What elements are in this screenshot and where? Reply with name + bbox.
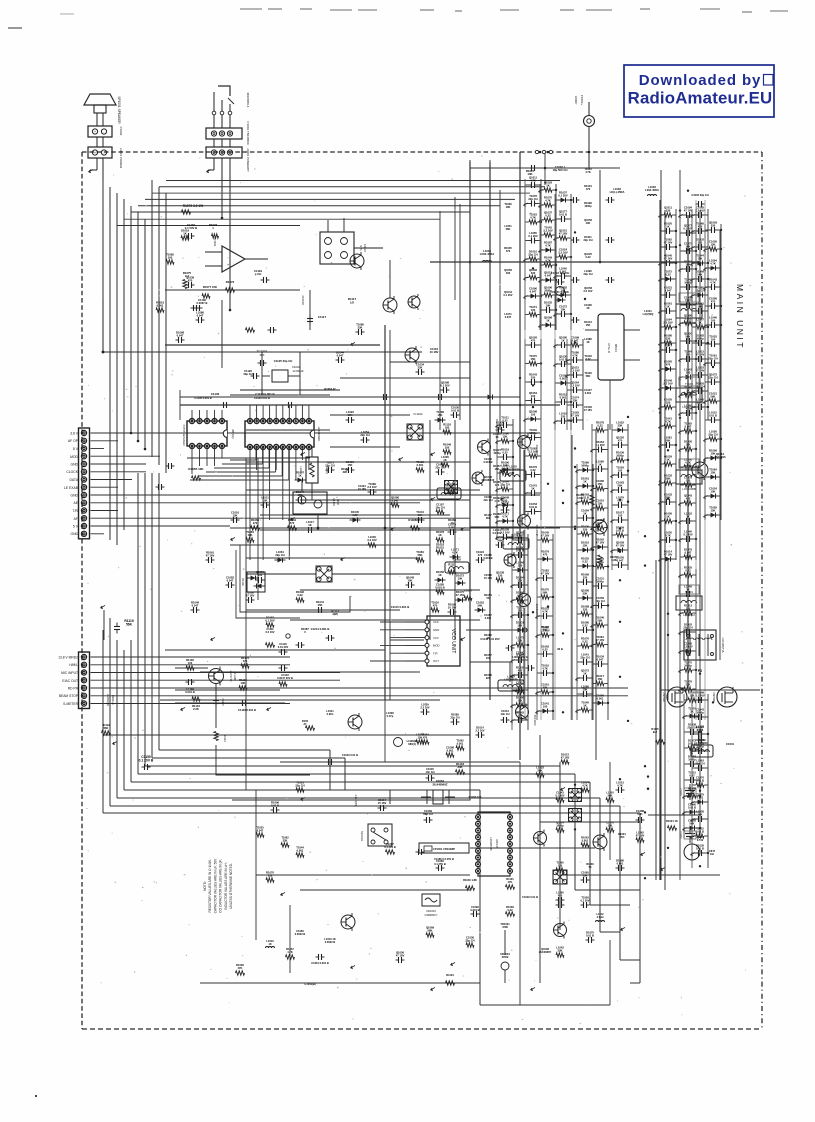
svg-text:MC145: MC145 [495,839,499,848]
svg-text:10K: 10K [458,577,463,581]
svg-text:15K: 15K [711,452,716,456]
svg-text:0.047: 0.047 [197,314,204,318]
svg-text:4.7K: 4.7K [572,354,578,358]
svg-text:470: 470 [711,300,716,304]
svg-text:0.22: 0.22 [697,728,703,732]
svg-text:+: + [94,151,96,155]
svg-text:0.22: 0.22 [665,273,671,277]
svg-text:1000p: 1000p [529,431,537,435]
svg-text:0.0067 B: 0.0067 B [197,301,208,305]
svg-text:2.2 16V: 2.2 16V [584,289,593,293]
svg-text:C1130: C1130 [211,392,220,396]
svg-text:AF AMP: AF AMP [233,671,237,681]
svg-text:10 18V: 10 18V [430,350,439,354]
svg-text:R1072 2.2 1W: R1072 2.2 1W [183,204,203,208]
svg-text:56K: 56K [104,726,109,730]
svg-text:0.22: 0.22 [585,255,591,259]
svg-text:4.7K: 4.7K [502,515,508,519]
svg-text:56K: 56K [126,623,133,627]
svg-text:0.01 B: 0.01 B [696,830,704,834]
svg-text:330: 330 [666,209,671,213]
svg-text:D1102: D1102 [241,578,245,586]
svg-text:1.8K: 1.8K [577,496,583,500]
svg-text:33K: 33K [543,686,548,690]
svg-text:AE: AE [73,501,78,505]
svg-text:47 16V: 47 16V [559,232,568,236]
svg-text:4.7K: 4.7K [542,610,548,614]
svg-text:L002-45RA: L002-45RA [480,252,494,256]
svg-text:33K: 33K [558,949,563,953]
svg-text:8 V: 8 V [73,447,79,451]
svg-text:47 16V: 47 16V [571,414,580,418]
svg-text:15K: 15K [698,257,703,261]
svg-text:MOD: MOD [433,644,440,648]
svg-text:22p CH: 22p CH [528,253,537,257]
svg-text:22p CH: 22p CH [695,385,704,389]
svg-text:0.047: 0.047 [227,579,234,583]
svg-text:4.7K: 4.7K [710,262,716,266]
svg-text:10n CH: 10n CH [426,770,435,774]
svg-text:47 16V: 47 16V [561,756,570,760]
svg-text:BEAM STOP: BEAM STOP [59,694,79,698]
svg-text:22p CH: 22p CH [708,433,717,437]
svg-text:0.1 20V: 0.1 20V [440,384,449,388]
svg-text:15K: 15K [583,544,588,548]
svg-text:15K: 15K [598,482,603,486]
svg-text:3.8 V: 3.8 V [70,432,79,436]
svg-text:0.01 B: 0.01 B [529,505,537,509]
svg-text:330: 330 [583,608,588,612]
svg-text:47 16V: 47 16V [541,572,550,576]
svg-text:1K: 1K [308,523,311,527]
svg-text:0.22: 0.22 [582,640,588,644]
svg-text:10K: 10K [711,490,716,494]
svg-text:470: 470 [253,521,258,525]
svg-text:0.001 B: 0.001 B [185,690,194,694]
svg-text:22p CH: 22p CH [580,656,589,660]
svg-text:10K: 10K [506,205,511,209]
svg-text:0.90n: 0.90n [327,712,334,716]
svg-text:RESISTOR VALUES ARE IN Ω 1/4W.: RESISTOR VALUES ARE IN Ω 1/4W. [208,859,212,912]
svg-text:R1070: R1070 [226,280,235,284]
svg-text:47 16V: 47 16V [696,369,705,373]
svg-text:8B(2)Q: 8B(2)Q [231,429,235,439]
svg-text:0.001: 0.001 [157,304,164,308]
svg-text:4.7K: 4.7K [545,244,551,248]
svg-text:LOC3304: LOC3304 [683,613,695,617]
svg-text:4.7K: 4.7K [585,170,591,174]
svg-text:GND: GND [70,532,78,536]
svg-text:0.01 20V: 0.01 20V [278,645,289,649]
svg-text:10K: 10K [561,308,566,312]
svg-text:R1062 47: R1062 47 [324,387,336,391]
svg-text:GND: GND [70,494,78,498]
svg-text:0.047: 0.047 [392,499,399,503]
svg-text:33K: 33K [583,873,588,877]
svg-text:4.7K: 4.7K [665,534,671,538]
svg-text:AF: AF [74,517,78,521]
svg-text:LOC3208B: LOC3208B [682,487,696,491]
svg-text:0.1 20V: 0.1 20V [265,619,274,623]
svg-text:0.001: 0.001 [582,838,589,842]
svg-text:8818: 8818 [336,499,340,505]
svg-text:LOC3007B: LOC3007B [506,468,519,472]
svg-text:LOC3306B: LOC3306B [682,321,696,325]
svg-text:2.2 16V: 2.2 16V [570,384,579,388]
svg-text:R1040 1.8K: R1040 1.8K [463,878,477,882]
svg-text:2SC2668Y: 2SC2668Y [535,604,539,617]
svg-text:2SK508: 2SK508 [712,692,716,702]
svg-text:4.7K: 4.7K [582,783,588,787]
svg-text:C1023: C1023 [679,831,682,839]
svg-text:2SC2668: 2SC2668 [535,525,539,536]
svg-text:100: 100 [188,661,193,665]
svg-text:0.22: 0.22 [582,624,588,628]
svg-text:J1004 POWER: J1004 POWER [119,148,123,169]
svg-text:2.2 16V: 2.2 16V [570,369,579,373]
svg-text:56K: 56K [666,439,671,443]
svg-text:15K: 15K [586,323,591,327]
svg-text:8001LF: 8001LF [111,695,115,705]
svg-text:0.1 25V B: 0.1 25V B [434,862,446,866]
svg-text:470: 470 [243,659,248,663]
svg-text:C1003 33p CH: C1003 33p CH [691,193,708,197]
svg-text:36 B: 36 B [557,647,563,651]
svg-text:R1051: R1051 [436,546,444,550]
svg-text:GND: GND [70,463,78,467]
svg-text:22p CH: 22p CH [451,715,460,719]
svg-text:10n CH: 10n CH [501,712,510,716]
svg-text:0.001: 0.001 [297,849,304,853]
svg-text:C1087: C1087 [464,588,472,592]
svg-text:680(1): 680(1) [408,742,416,746]
svg-text:1K: 1K [586,306,589,310]
svg-text:470: 470 [698,225,703,229]
svg-text:CO CAPACITOR VALUES ARE IN pF.: CO CAPACITOR VALUES ARE IN pF. [219,859,223,913]
svg-text:1000p: 1000p [696,711,704,715]
svg-text:10K: 10K [586,221,591,225]
svg-text:0.1 20V: 0.1 20V [528,234,537,238]
svg-text:0.22: 0.22 [297,593,303,597]
svg-text:22p CH: 22p CH [465,939,474,943]
svg-text:100: 100 [531,308,536,312]
svg-text:1K: 1K [666,305,669,309]
svg-text:LOC3007B: LOC3007B [504,678,517,682]
svg-text:1000p: 1000p [596,580,604,584]
svg-text:470: 470 [188,279,193,283]
svg-text:2.2 16V: 2.2 16V [476,728,485,732]
svg-text:CAPACITOR VALUES ARE IN uF. 50: CAPACITOR VALUES ARE IN uF. 50V [213,858,217,913]
svg-text:1000p: 1000p [696,337,704,341]
svg-text:C1031: C1031 [726,742,734,746]
svg-text:47K: 47K [508,880,513,884]
svg-text:0.047: 0.047 [257,828,264,832]
svg-text:0.1 20V: 0.1 20V [581,898,590,902]
svg-text:330: 330 [268,874,273,878]
svg-text:470: 470 [506,249,511,253]
svg-text:33p CH: 33p CH [243,372,252,376]
svg-text:0.1 20V: 0.1 20V [504,293,513,297]
svg-text:0.001 B: 0.001 B [483,460,492,464]
svg-text:470: 470 [433,604,438,608]
svg-text:0.22: 0.22 [502,419,508,423]
svg-text:15K: 15K [711,471,716,475]
svg-text:0.0022 B: 0.0022 B [325,940,336,944]
svg-text:DATA: DATA [69,478,78,482]
svg-text:56K: 56K [598,619,603,623]
svg-text:1K: 1K [583,512,586,516]
svg-text:T/R: T/R [73,509,79,513]
svg-text:33K: 33K [358,326,363,330]
svg-text:0.22: 0.22 [582,560,588,564]
svg-text:470: 470 [586,187,591,191]
svg-text:330: 330 [561,415,566,419]
svg-text:CLOCK: CLOCK [66,470,78,474]
svg-text:0.47p: 0.47p [387,714,394,718]
svg-text:100: 100 [618,514,623,518]
svg-text:HD4053B: HD4053B [489,837,493,850]
svg-text:33K: 33K [583,592,588,596]
svg-text:0.047: 0.047 [597,658,604,662]
svg-text:0.1 20V B: 0.1 20V B [384,845,396,849]
svg-text:22n CH: 22n CH [435,466,444,470]
svg-text:22p CH: 22p CH [584,272,593,276]
svg-text:1K: 1K [443,458,446,462]
svg-text:PD: PD [698,669,703,673]
svg-text:18p 50V CH: 18p 50V CH [553,168,568,172]
svg-text:T1001: T1001 [685,590,693,594]
svg-text:330: 330 [698,241,703,245]
svg-text:C1117: C1117 [318,315,327,319]
svg-text:22p CH: 22p CH [528,197,537,201]
svg-text:100: 100 [445,446,450,450]
svg-text:1K: 1K [666,458,669,462]
svg-text:47 16V: 47 16V [636,834,645,838]
svg-text:100: 100 [531,394,536,398]
svg-text:LE EXAB: LE EXAB [64,486,79,490]
svg-text:1K: 1K [495,435,498,439]
svg-text:0.1 20V B: 0.1 20V B [139,759,154,763]
svg-text:47 16V: 47 16V [246,594,255,598]
svg-text:0.047: 0.047 [617,559,624,563]
svg-text:15K: 15K [531,357,536,361]
svg-text:P1001 T8038800: P1001 T8038800 [246,122,250,145]
svg-text:0.001 B: 0.001 B [470,908,479,912]
svg-text:15K: 15K [711,243,716,247]
svg-text:47 16V: 47 16V [696,353,705,357]
svg-text:2.2 16V: 2.2 16V [421,705,430,709]
svg-text:0.22: 0.22 [585,357,591,361]
svg-text:SP1001 SPEAKER: SP1001 SPEAKER [117,96,121,124]
svg-text:J1001 POWER8T: J1001 POWER8T [246,148,250,172]
svg-text:2.2 16V: 2.2 16V [695,209,704,213]
svg-text:IC1101: IC1101 [213,237,217,247]
svg-text:OUT: OUT [433,659,439,663]
svg-text:0.047: 0.047 [505,315,512,319]
svg-text:15 16V: 15 16V [484,576,492,580]
svg-text:p CH: p CH [255,272,262,276]
svg-text:47 16V: 47 16V [396,954,405,958]
svg-text:1K: 1K [486,636,489,640]
svg-text:360: 360 [486,516,491,520]
svg-text:100: 100 [666,401,671,405]
svg-text:1K: 1K [183,232,186,236]
svg-text:L002-45RA: L002-45RA [645,188,659,192]
svg-text:22p CH: 22p CH [695,762,704,766]
svg-text:0.01 B: 0.01 B [696,847,704,851]
svg-text:56K: 56K [478,604,483,608]
svg-text:P1002: P1002 [119,127,123,136]
svg-text:RD PR: RD PR [68,687,79,691]
svg-text:C1214 0.001 B: C1214 0.001 B [311,627,330,631]
svg-text:R1065 470: R1065 470 [408,518,422,522]
svg-text:4(M): 4(M) [332,612,338,616]
svg-text:MIC INPUT: MIC INPUT [61,671,78,675]
svg-text:C1003 33p CH: C1003 33p CH [551,271,570,275]
svg-text:10K: 10K [698,813,703,817]
svg-text:100: 100 [711,319,716,323]
svg-text:10: 10 [451,521,454,525]
svg-text:1000P: 1000P [574,96,578,105]
svg-text:0.01 B: 0.01 B [709,414,717,418]
svg-text:0.001: 0.001 [617,862,624,866]
svg-text:0.22: 0.22 [597,424,603,428]
svg-text:VCV: VCV [433,636,439,640]
svg-text:68p CH: 68p CH [423,812,432,816]
svg-text:C1043 0.01 B: C1043 0.01 B [342,753,358,757]
svg-text:C1115 0.001 B: C1115 0.001 B [391,605,410,609]
svg-text:22p CH: 22p CH [695,401,704,405]
svg-text:56K: 56K [586,374,591,378]
svg-text:56K: 56K [711,395,716,399]
svg-text:15K: 15K [711,509,716,513]
svg-text:R1033 100: R1033 100 [469,795,482,799]
svg-text:100: 100 [531,413,536,417]
svg-text:D1001 S1308: D1001 S1308 [551,290,569,294]
svg-text:4.7K: 4.7K [542,667,548,671]
svg-text:CD1001: CD1001 [426,909,436,913]
svg-text:4.7K: 4.7K [530,216,536,220]
svg-text:15K: 15K [598,677,603,681]
svg-text:C1125 33p CH: C1125 33p CH [274,359,293,363]
svg-text:RadioAmateur.EU: RadioAmateur.EU [628,89,773,108]
svg-text:56K: 56K [543,591,548,595]
svg-text:22p CH: 22p CH [708,357,717,361]
svg-text:0.01 B: 0.01 B [451,409,459,413]
svg-text:MAIN UNIT: MAIN UNIT [735,284,745,350]
svg-text:56K: 56K [538,769,543,773]
svg-text:2.2 16V: 2.2 16V [266,630,275,634]
svg-text:UNLESS OTHERWISE NOTED.: UNLESS OTHERWISE NOTED. [229,863,233,909]
svg-text:47 16V: 47 16V [456,593,465,597]
svg-text:201018: 201018 [301,295,305,305]
svg-text:1K: 1K [438,573,441,577]
svg-text:15K: 15K [233,514,238,518]
svg-text:XTAL B: XTAL B [607,343,611,353]
svg-text:5 V: 5 V [73,525,79,529]
svg-text:C1049 0.01 B: C1049 0.01 B [522,895,538,899]
svg-text:EIAC OUT: EIAC OUT [62,679,78,683]
svg-text:0.001: 0.001 [597,697,604,701]
svg-text:330: 330 [531,376,536,380]
svg-text:INDUCTOR VALUES ARE IN uH.: INDUCTOR VALUES ARE IN uH. [224,862,228,909]
svg-text:MIC8080-4: MIC8080-4 [246,93,250,108]
svg-text:47 16V: 47 16V [596,541,605,545]
svg-text:0.047: 0.047 [337,354,344,358]
svg-text:0.01: 0.01 [637,812,643,816]
svg-text:330: 330 [498,574,503,578]
svg-text:330: 330 [711,224,716,228]
svg-text:1K: 1K [583,672,586,676]
svg-text:47 16V: 47 16V [684,209,693,213]
svg-text:470: 470 [666,363,671,367]
svg-text:47 16V: 47 16V [206,554,215,558]
svg-text:10K: 10K [698,305,703,309]
svg-text:0.001: 0.001 [417,463,424,467]
svg-text:0.001: 0.001 [447,749,454,753]
svg-text:22n CH: 22n CH [484,498,493,502]
svg-text:0.001: 0.001 [485,616,492,620]
svg-text:AF OP: AF OP [68,439,79,443]
svg-text:1/2: 1/2 [350,300,354,304]
svg-text:10K: 10K [527,172,532,176]
svg-text:15 16V: 15 16V [378,801,387,805]
svg-text:2SC: 2SC [619,835,624,839]
svg-text:0.001 B: 0.001 B [483,556,492,560]
svg-text:2.2 16V: 2.2 16V [367,485,376,489]
svg-text:33K: 33K [618,424,623,428]
svg-text:H/M/L: H/M/L [69,663,78,667]
svg-text:2.2 16V: 2.2 16V [493,531,502,535]
svg-text:10K: 10K [583,688,588,692]
svg-text:1000p: 1000p [696,745,704,749]
svg-text:1K: 1K [546,184,549,188]
svg-text:CP1001 CPB4B8P: CP1001 CPB4B8P [433,847,455,851]
svg-text:33K: 33K [418,366,423,370]
svg-text:56K: 56K [495,515,500,519]
svg-text:56K: 56K [506,227,511,231]
svg-text:IC1102: IC1102 [413,412,422,416]
svg-text:22p CH: 22p CH [695,289,704,293]
svg-text:33K: 33K [283,838,288,842]
svg-text:1000p: 1000p [493,451,501,455]
svg-text:0.01 B: 0.01 B [696,779,704,783]
svg-text:0.047: 0.047 [192,604,199,608]
svg-text:0.01 B: 0.01 B [271,804,279,808]
svg-text:C1061 0.001 B: C1061 0.001 B [311,961,329,965]
svg-text:R1065 10K: R1065 10K [188,467,204,471]
svg-text:R1124: R1124 [446,973,454,977]
svg-text:R1114: R1114 [223,735,226,743]
svg-text:330: 330 [583,576,588,580]
svg-text:4.7uH: 4.7uH [597,916,604,919]
svg-text:22p CH: 22p CH [295,784,304,788]
svg-text:C1023: C1023 [679,788,682,796]
svg-text:1000p: 1000p [581,464,589,468]
svg-text:2SC2668: 2SC2668 [535,445,539,456]
svg-text:56K: 56K [666,477,671,481]
svg-text:0.1 20V: 0.1 20V [695,694,704,698]
svg-text:0.001: 0.001 [697,796,704,800]
svg-text:R1077 15K: R1077 15K [203,285,217,289]
svg-text:LA(2)SQ: LA(2)SQ [643,312,654,316]
svg-text:10n CH: 10n CH [435,506,444,510]
svg-text:2.2 16V: 2.2 16V [540,629,549,633]
svg-text:0.047: 0.047 [665,289,672,293]
svg-text:100: 100 [618,469,623,473]
svg-text:L1001: L1001 [445,484,453,488]
svg-text:1K: 1K [298,474,301,478]
